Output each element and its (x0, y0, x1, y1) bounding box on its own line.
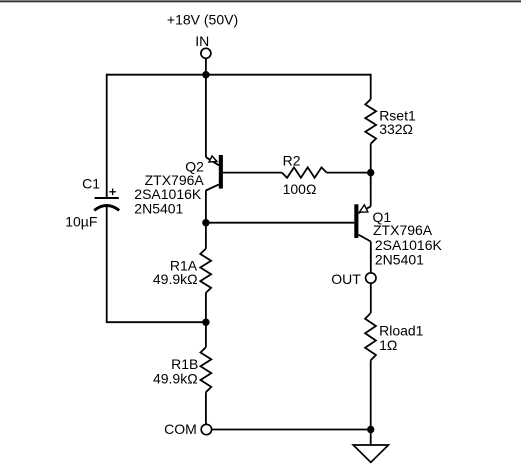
resistor Rload1 (365, 313, 376, 360)
svg-text:+18V (50V): +18V (50V) (167, 12, 238, 28)
svg-text:332Ω: 332Ω (379, 121, 413, 137)
svg-text:2N5401: 2N5401 (375, 252, 424, 268)
wire: middle rail R1B to COM (205, 392, 207, 424)
junction IN rail (202, 71, 209, 78)
capacitor C1 (polarized) (94, 189, 119, 211)
wire: left rail upper (to C1) (106, 74, 108, 197)
svg-text:C1: C1 (82, 175, 100, 191)
transistor Q2 (PNP) (206, 155, 223, 191)
ground symbol (353, 445, 388, 462)
wire: Q2 base to R2 (223, 172, 282, 174)
resistor R1B (201, 347, 212, 392)
svg-text:R2: R2 (283, 152, 301, 168)
wire: Rload1 to COM rail / ground (370, 361, 372, 445)
svg-text:10µF: 10µF (65, 213, 97, 229)
wire: middle rail R1A to R1B (205, 293, 207, 347)
resistor Rset1 (365, 99, 376, 143)
svg-text:IN: IN (195, 33, 209, 49)
resistor R2 (282, 167, 327, 177)
junction R2/Rset1 (367, 169, 374, 176)
svg-text:100Ω: 100Ω (283, 181, 317, 197)
wire: Q1 base wire from middle rail (206, 222, 354, 224)
svg-text:49.9kΩ: 49.9kΩ (153, 370, 198, 386)
node IN terminal circle (201, 48, 211, 58)
svg-text:COM: COM (164, 421, 197, 437)
svg-text:49.9kΩ: 49.9kΩ (153, 271, 198, 287)
svg-text:2N5401: 2N5401 (134, 201, 183, 217)
junction C1 bottom / R1A-R1B (202, 319, 209, 326)
wire: right rail top (to Rset1) (369, 74, 372, 76)
svg-text:2SA1016K: 2SA1016K (375, 237, 443, 253)
wire: Q1 collector to OUT (370, 242, 372, 273)
wire: middle rail Q2 collector to R1A (205, 190, 207, 249)
wire: COM horizontal to ground rail (212, 429, 371, 431)
node COM terminal circle (201, 424, 211, 434)
wire: right rail Rset1 to Q1 emitter corner (370, 144, 372, 207)
wire: IN stem down through Q2 emitter corner (205, 58, 207, 157)
top border rule (0, 0, 521, 2)
node OUT terminal circle (366, 273, 376, 283)
svg-text:OUT: OUT (331, 271, 361, 287)
wire: OUT to Rload1 (370, 283, 372, 313)
wire: top horizontal rail (107, 74, 371, 76)
resistor R1A (200, 249, 211, 293)
wire: R2 to right rail (327, 172, 371, 174)
wire: left rail lower (C1 to bottom bend) (107, 206, 206, 322)
junction Q1 base tap (202, 219, 209, 226)
svg-text:ZTX796A: ZTX796A (373, 222, 433, 238)
svg-text:1Ω: 1Ω (379, 337, 397, 353)
transistor Q1 (PNP, mirrored) (354, 204, 371, 241)
junction COM/ground (367, 426, 374, 433)
